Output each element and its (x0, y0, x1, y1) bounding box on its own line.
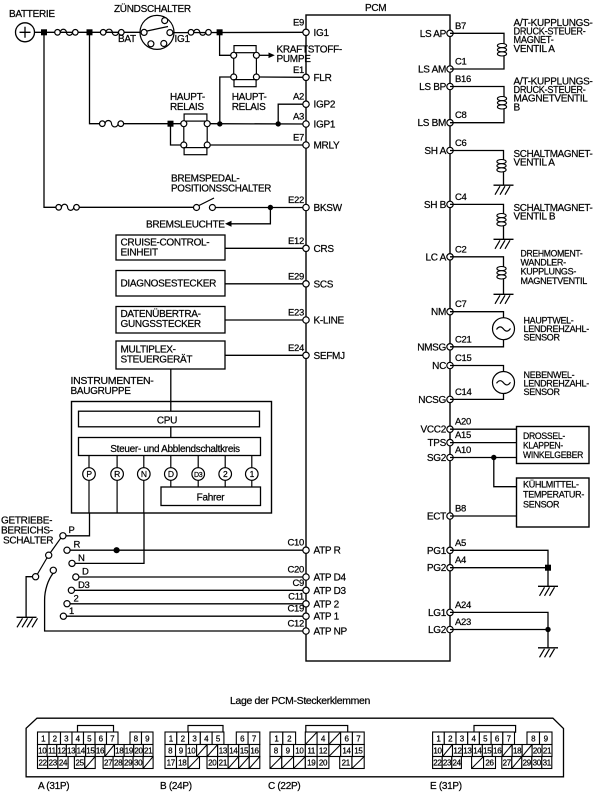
svg-text:C12: C12 (287, 619, 304, 630)
svg-text:NCSG: NCSG (418, 395, 446, 406)
svg-text:SCS: SCS (314, 279, 334, 290)
svg-text:STEUERGERÄT: STEUERGERÄT (121, 354, 193, 366)
range switch contact R (64, 540, 81, 554)
svg-text:E29: E29 (288, 271, 304, 282)
svg-text:C4: C4 (455, 192, 467, 203)
pin A2 IGP2 (293, 92, 336, 111)
svg-text:A4: A4 (455, 555, 466, 566)
ground PG (538, 586, 558, 596)
svg-text:14: 14 (77, 746, 86, 755)
svg-text:C1: C1 (455, 57, 467, 68)
svg-text:A24: A24 (455, 600, 471, 611)
wire D3 contact to ATP D3 pin (75, 589, 307, 591)
connector A (31P) (38, 726, 154, 793)
wire diagnose to SCS pin (225, 283, 306, 285)
node LG junction (545, 627, 550, 632)
wire fuse to main relay (124, 123, 181, 125)
relay HAUPT-RELAIS (main relay) (170, 92, 210, 155)
box DATENUEBERTRAGUNGSSTECKER (116, 307, 225, 334)
fuse F4 (56, 204, 79, 210)
wire CPU to Steuer box (170, 427, 172, 438)
wire multiplex down to cluster CPU (170, 369, 172, 411)
svg-text:10: 10 (187, 746, 196, 755)
range switch contact 1 (60, 606, 74, 619)
svg-text:KLAPPEN-: KLAPPEN- (523, 441, 563, 451)
pin E9 IG1 (293, 17, 329, 39)
svg-text:11: 11 (307, 746, 316, 755)
svg-text:BATTERIE: BATTERIE (9, 9, 55, 20)
svg-text:SG2: SG2 (427, 453, 447, 464)
svg-text:B7: B7 (455, 21, 466, 32)
svg-text:C14: C14 (455, 387, 472, 398)
svg-text:E12: E12 (288, 236, 304, 247)
arrow BREMSLEUCHTE (146, 220, 232, 231)
svg-text:29: 29 (523, 758, 532, 767)
svg-text:SH A: SH A (424, 146, 446, 157)
svg-text:15: 15 (354, 746, 363, 755)
pin C12 ATP NP (287, 619, 347, 638)
PCM box U1 (306, 3, 450, 661)
wire PG1 to ground (450, 550, 548, 567)
svg-text:LG2: LG2 (428, 625, 447, 636)
pin E23 K-LINE (288, 308, 345, 327)
wire IGP2 branch (278, 104, 306, 124)
pin C21 NMSG (417, 334, 471, 353)
svg-text:C10: C10 (287, 538, 304, 549)
svg-text:VENTIL A: VENTIL A (514, 158, 556, 169)
pin C6 SH A (424, 138, 466, 157)
svg-text:21: 21 (144, 746, 153, 755)
node J5 (276, 121, 281, 126)
svg-text:1: 1 (250, 469, 255, 479)
svg-text:ATP D4: ATP D4 (314, 573, 347, 584)
wire LG2 to ground (450, 630, 548, 648)
svg-text:27: 27 (104, 758, 113, 767)
sensor countershaft speed (NEBENWELLENDREHZAHLSENSOR) (450, 366, 589, 400)
pin C8 LS BM (417, 110, 466, 129)
svg-text:A10: A10 (455, 445, 471, 456)
svg-text:C (22P): C (22P) (268, 781, 300, 792)
svg-text:18: 18 (513, 746, 522, 755)
pin B7 LS AP (420, 21, 466, 40)
svg-text:10: 10 (38, 746, 47, 755)
wire multiplex to SEFMJ pin (225, 354, 306, 356)
instrument cluster INSTRUMENTEN-BAUGRUPPE (71, 376, 272, 513)
wire lamp D3 to Fahrer (197, 480, 199, 487)
svg-text:SENSOR: SENSOR (524, 387, 561, 397)
svg-text:18: 18 (115, 746, 124, 755)
pin C10 ATP R (287, 538, 340, 557)
title Lage der PCM-Steckerklemmen (230, 696, 370, 707)
wire PG2 to ground (450, 568, 548, 587)
indicator lamp 1 (246, 456, 259, 481)
ground SH A (494, 185, 514, 195)
svg-text:NM: NM (431, 307, 446, 318)
svg-text:NMSG: NMSG (417, 342, 446, 353)
range switch contact 2 (64, 594, 79, 607)
svg-text:E (31P): E (31P) (430, 781, 462, 792)
svg-text:11: 11 (48, 746, 57, 755)
wire 1 contact to ATP 1 pin (67, 615, 307, 617)
indicator lamp D3 (192, 456, 205, 481)
svg-text:27: 27 (503, 758, 512, 767)
wire 2 contact to ATP 2 pin (70, 603, 306, 605)
svg-text:R: R (74, 540, 81, 551)
svg-text:22: 22 (38, 758, 47, 767)
wire SG2 branch to coolant sensor (494, 458, 517, 487)
svg-text:IGP2: IGP2 (314, 100, 336, 111)
svg-text:DROSSEL-: DROSSEL- (523, 431, 565, 441)
svg-text:10: 10 (433, 746, 442, 755)
svg-text:BAUGRUPPE: BAUGRUPPE (71, 386, 132, 397)
svg-text:TPS: TPS (427, 438, 446, 449)
svg-text:16: 16 (493, 746, 502, 755)
wire lamp D to Fahrer (170, 480, 172, 487)
wire lamp 1 to Fahrer (251, 480, 253, 487)
pin E22 BKSW (288, 195, 343, 214)
fuse F1 (55, 29, 78, 35)
connector C (22P) (268, 726, 364, 793)
fuse F2 (100, 29, 124, 35)
box Steuer- und Abblendschaltkreis (79, 438, 261, 456)
svg-text:LS AM: LS AM (418, 65, 446, 76)
pin C4 SH B (424, 192, 467, 211)
pin C11 ATP 2 (288, 591, 339, 610)
range switch contact P (60, 525, 75, 539)
svg-text:31: 31 (543, 758, 552, 767)
svg-text:C21: C21 (455, 334, 472, 345)
svg-text:C9: C9 (292, 578, 304, 589)
wire lamp N down (143, 480, 145, 513)
throttle position sensor box DROSSELKLAPPENWINKELGEBER (450, 427, 589, 464)
svg-text:2: 2 (223, 469, 228, 479)
svg-text:A2: A2 (293, 92, 304, 103)
svg-text:ATP 1: ATP 1 (314, 612, 340, 623)
pin A20 VCC2 (421, 417, 472, 436)
solenoid SH B (shift valve B) (450, 203, 593, 239)
svg-text:SEFMJ: SEFMJ (314, 351, 346, 362)
svg-text:LC A: LC A (426, 252, 447, 263)
svg-text:ECT: ECT (427, 512, 446, 523)
wire lamp R down (116, 480, 118, 513)
svg-text:RELAIS: RELAIS (232, 102, 266, 113)
pin C15 NC (432, 353, 471, 372)
svg-text:C7: C7 (455, 299, 467, 310)
solenoid LS A (A/T clutch pressure control valve A) (450, 18, 593, 69)
svg-text:N: N (78, 553, 85, 564)
svg-text:KÜHLMITTEL-: KÜHLMITTEL- (523, 480, 579, 490)
svg-text:BKSW: BKSW (314, 203, 343, 214)
indicator lamp 2 (219, 456, 232, 481)
svg-text:16: 16 (96, 746, 105, 755)
svg-text:D3: D3 (78, 580, 90, 591)
svg-text:LS BM: LS BM (417, 118, 446, 129)
svg-text:30: 30 (533, 758, 542, 767)
svg-text:28: 28 (114, 758, 123, 767)
pin A4 PG2 (427, 555, 466, 574)
connector E (31P) (430, 726, 552, 793)
node J3 (217, 29, 223, 35)
wire branch to brake lights (231, 208, 270, 224)
range switch contact D3 (68, 580, 89, 593)
svg-text:N: N (141, 469, 147, 479)
svg-text:ATP NP: ATP NP (314, 627, 348, 638)
svg-text:VCC2: VCC2 (421, 425, 447, 436)
svg-text:12: 12 (319, 746, 328, 755)
indicator lamp D (165, 456, 178, 481)
wire lamp P down (88, 480, 90, 513)
svg-text:2: 2 (74, 594, 79, 605)
svg-text:NC: NC (432, 361, 446, 372)
wire R contact to ATP R pin (70, 549, 306, 551)
svg-text:19: 19 (307, 758, 316, 767)
svg-text:VENTIL A: VENTIL A (514, 44, 556, 55)
svg-text:IG1: IG1 (314, 28, 330, 39)
pin A15 TPS (427, 430, 471, 449)
svg-text:14: 14 (342, 746, 351, 755)
svg-text:Lage der PCM-Steckerklemmen: Lage der PCM-Steckerklemmen (230, 696, 370, 707)
svg-text:BAT: BAT (118, 34, 136, 45)
svg-text:LS BP: LS BP (419, 82, 446, 93)
pin C14 NCSG (418, 387, 471, 406)
arrow to KRAFTSTOFFPUMPE (269, 45, 342, 66)
wire main relay to IGP1 pin (210, 123, 306, 125)
svg-text:23: 23 (443, 758, 452, 767)
svg-text:LG1: LG1 (428, 608, 447, 619)
svg-text:SENSOR: SENSOR (524, 333, 561, 343)
node J6 (268, 205, 273, 210)
pin C2 LC A (426, 244, 467, 263)
svg-text:21: 21 (342, 758, 351, 767)
svg-text:A15: A15 (455, 430, 471, 441)
transmission range switch GETRIEBE-BEREICHS-SCHALTER (1, 516, 53, 547)
svg-text:PG2: PG2 (427, 563, 447, 574)
svg-text:15: 15 (240, 746, 249, 755)
svg-text:B: B (514, 102, 521, 113)
pin E1 FLR (293, 65, 332, 84)
range switch wiper arm (33, 538, 61, 580)
pin C1 LS AM (418, 57, 467, 76)
svg-text:13: 13 (219, 746, 228, 755)
node J4 (217, 121, 222, 126)
box CPU (79, 411, 260, 427)
indicator lamp R (111, 456, 124, 481)
svg-text:14: 14 (473, 746, 482, 755)
svg-text:29: 29 (124, 758, 133, 767)
svg-text:1: 1 (69, 606, 74, 617)
svg-text:15: 15 (483, 746, 492, 755)
svg-text:DIAGNOSESTECKER: DIAGNOSESTECKER (121, 279, 217, 290)
svg-text:SENSOR: SENSOR (523, 500, 560, 510)
svg-text:C6: C6 (455, 138, 467, 149)
wire wiper to ground (26, 577, 32, 618)
svg-text:CPU: CPU (157, 416, 177, 427)
svg-text:WINKELGEBER: WINKELGEBER (523, 450, 584, 460)
wire T1 to relay lower terminal (171, 124, 181, 145)
svg-text:IG1: IG1 (175, 34, 191, 45)
wire D contact to ATP D4 pin (79, 576, 306, 578)
svg-text:12: 12 (57, 746, 66, 755)
ground LC A (494, 294, 514, 304)
svg-text:VENTIL B: VENTIL B (514, 212, 556, 223)
svg-text:20: 20 (134, 746, 143, 755)
svg-text:C2: C2 (455, 244, 467, 255)
svg-text:13: 13 (463, 746, 472, 755)
svg-text:14: 14 (229, 746, 238, 755)
svg-text:FLR: FLR (314, 73, 332, 84)
pin A23 LG2 (428, 617, 471, 636)
svg-text:Steuer- und Abblendschaltkreis: Steuer- und Abblendschaltkreis (110, 444, 240, 455)
svg-text:C8: C8 (455, 110, 467, 121)
svg-text:Fahrer: Fahrer (197, 493, 226, 504)
wire NP from wiper to ATP NP pin (45, 573, 306, 631)
wire daten to K-LINE pin (225, 319, 306, 321)
svg-text:BREMSLEUCHTE: BREMSLEUCHTE (146, 220, 225, 231)
box CRUISE-CONTROL-EINHEIT (116, 235, 225, 260)
wire LG1 to ground (450, 612, 548, 629)
svg-text:R: R (114, 469, 120, 479)
node R junction (114, 547, 120, 553)
wire fuel relay to pump arrow (259, 54, 269, 56)
svg-text:A23: A23 (455, 617, 471, 628)
svg-text:18: 18 (178, 758, 187, 767)
svg-text:22: 22 (433, 758, 442, 767)
box Fahrer (161, 487, 261, 506)
pin E29 SCS (288, 271, 334, 290)
svg-text:A (31P): A (31P) (38, 781, 69, 792)
indicator lamp P (83, 456, 96, 481)
svg-text:19: 19 (125, 746, 134, 755)
pin C19 ATP 1 (287, 604, 339, 623)
svg-text:E9: E9 (293, 17, 304, 28)
svg-text:C20: C20 (287, 565, 304, 576)
svg-text:E23: E23 (288, 308, 304, 319)
svg-text:CRS: CRS (314, 244, 335, 255)
wire fuse to brake switch (79, 206, 193, 208)
svg-text:A20: A20 (455, 417, 471, 428)
svg-text:C19: C19 (287, 604, 304, 615)
ground SH B (494, 239, 514, 249)
svg-text:ATP R: ATP R (314, 546, 341, 557)
svg-text:15: 15 (86, 746, 95, 755)
pin A3 IGP1 (293, 112, 336, 131)
svg-text:B8: B8 (455, 504, 466, 515)
wire brake switch to BKSW pin (215, 207, 306, 209)
wire fuel relay lower-left down to IGP1 line (220, 77, 231, 124)
svg-text:12: 12 (453, 746, 462, 755)
wire N contact to lamp N (75, 513, 144, 563)
pin E12 CRS (288, 236, 334, 255)
svg-text:C15: C15 (455, 353, 472, 364)
indicator lamp N (138, 456, 151, 481)
svg-text:20: 20 (319, 758, 328, 767)
svg-text:SH B: SH B (424, 200, 447, 211)
svg-text:13: 13 (67, 746, 76, 755)
fuse F5 (100, 120, 124, 126)
ignition switch ZUENDSCHALTER (114, 3, 191, 49)
svg-text:GUNGSSTECKER: GUNGSSTECKER (121, 319, 201, 330)
pin B8 ECT (427, 504, 466, 523)
wire P contact to lamp P (66, 513, 90, 536)
svg-text:C11: C11 (288, 591, 304, 602)
brake pedal position switch (171, 174, 271, 211)
svg-text:21: 21 (543, 746, 552, 755)
box DIAGNOSESTECKER (116, 271, 225, 297)
svg-text:E7: E7 (293, 133, 304, 144)
range switch contact N (69, 553, 85, 567)
svg-text:A5: A5 (455, 538, 466, 549)
svg-text:MAGNETVENTIL: MAGNETVENTIL (521, 276, 588, 286)
svg-text:24: 24 (452, 758, 461, 767)
svg-text:10: 10 (295, 746, 304, 755)
pin C20 ATP D4 (287, 565, 346, 584)
ground range switch (17, 617, 38, 627)
svg-text:SCHALTER: SCHALTER (3, 536, 53, 547)
svg-text:K-LINE: K-LINE (314, 316, 345, 327)
node PG junction (545, 565, 551, 571)
svg-text:D: D (82, 567, 89, 578)
wire J3 down to fuel relay (220, 32, 231, 55)
pin E7 MRLY (293, 133, 340, 152)
svg-text:LS AP: LS AP (420, 29, 447, 40)
wire cruise to CRS pin (225, 247, 306, 249)
svg-text:EINHEIT: EINHEIT (121, 248, 159, 259)
wire ECT to coolant sensor (450, 515, 517, 517)
range switch contact D (73, 567, 89, 581)
node J2 (87, 29, 93, 35)
svg-text:TEMPERATUR-: TEMPERATUR- (523, 490, 584, 500)
svg-text:24: 24 (59, 758, 68, 767)
svg-text:PG1: PG1 (427, 546, 447, 557)
node T1 (168, 121, 174, 127)
wire ignition to PCM IG1 (173, 31, 306, 33)
sensor mainshaft speed (HAUPTWELLENDREHZAHLSENSOR) (450, 312, 589, 347)
node SG2 junction (491, 455, 496, 460)
svg-text:PCM: PCM (365, 3, 386, 14)
svg-text:E24: E24 (288, 343, 304, 354)
pin A5 PG1 (427, 538, 466, 557)
pin C9 ATP D3 (292, 578, 346, 597)
solenoid LC A (torque converter clutch valve) (450, 248, 587, 294)
svg-text:B16: B16 (455, 74, 471, 85)
solenoid LS B (A/T clutch pressure control valve B) (450, 77, 593, 123)
ground LG (538, 648, 558, 658)
svg-text:E1: E1 (293, 65, 304, 76)
wire J2 down to relay feed (90, 32, 100, 123)
svg-text:26: 26 (485, 758, 494, 767)
svg-text:P: P (86, 469, 92, 479)
svg-text:23: 23 (49, 758, 58, 767)
relay fuel pump HAUPT-RELAIS (231, 46, 267, 113)
svg-text:MRLY: MRLY (314, 141, 340, 152)
wire lamp 2 to Fahrer (224, 480, 226, 487)
wire fuel relay lower-right to FLR pin (259, 76, 306, 78)
node J1 (41, 29, 47, 35)
pin E24 SEFMJ (288, 343, 345, 362)
svg-text:25: 25 (75, 758, 84, 767)
pin C7 NM (431, 299, 467, 318)
svg-text:ATP D3: ATP D3 (314, 586, 347, 597)
svg-text:B (24P): B (24P) (160, 781, 192, 792)
svg-text:17: 17 (167, 758, 176, 767)
coolant temperature sensor box KUEHLMITTEL (517, 478, 590, 527)
wire battery to ignition (35, 31, 141, 33)
svg-text:20: 20 (533, 746, 542, 755)
svg-text:20: 20 (208, 758, 217, 767)
svg-text:D3: D3 (194, 472, 203, 479)
svg-text:D: D (168, 469, 174, 479)
pin B16 LS BP (419, 74, 471, 93)
